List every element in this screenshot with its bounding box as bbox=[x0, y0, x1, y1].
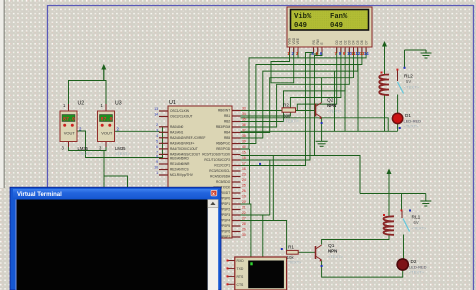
svg-text:35: 35 bbox=[242, 118, 246, 122]
svg-text:OSC2/CLKOUT: OSC2/CLKOUT bbox=[170, 115, 193, 119]
svg-text:28: 28 bbox=[242, 222, 246, 226]
svg-text:87.0: 87.0 bbox=[63, 117, 75, 123]
svg-text:13: 13 bbox=[154, 107, 158, 111]
svg-text:RA3/AN3/VREF+: RA3/AN3/VREF+ bbox=[170, 142, 195, 146]
svg-text:RC1/T1OSI/CCP2: RC1/T1OSI/CCP2 bbox=[204, 158, 230, 162]
svg-text:<TEXT>: <TEXT> bbox=[287, 260, 303, 265]
svg-text:<TEXT>: <TEXT> bbox=[115, 151, 131, 156]
svg-text:8: 8 bbox=[156, 155, 158, 159]
svg-text:U3: U3 bbox=[115, 101, 122, 107]
svg-text:RB4: RB4 bbox=[224, 131, 230, 135]
svg-text:18: 18 bbox=[242, 167, 246, 171]
svg-text:TXD: TXD bbox=[237, 267, 244, 271]
svg-text:R1: R1 bbox=[288, 245, 294, 250]
svg-text:NPN: NPN bbox=[327, 103, 336, 108]
svg-text:CTS: CTS bbox=[237, 283, 245, 287]
svg-text:15: 15 bbox=[242, 151, 246, 155]
svg-text:25: 25 bbox=[242, 184, 246, 188]
svg-text:Vib%: Vib% bbox=[294, 13, 312, 21]
svg-text:x: x bbox=[212, 191, 215, 196]
svg-text:VEE: VEE bbox=[296, 38, 300, 44]
svg-text:5V: 5V bbox=[406, 79, 411, 84]
svg-text:<TEXT>: <TEXT> bbox=[328, 254, 344, 259]
svg-text:049: 049 bbox=[330, 22, 343, 30]
svg-text:RB5: RB5 bbox=[224, 136, 230, 140]
svg-text:36: 36 bbox=[242, 123, 246, 127]
svg-text:27: 27 bbox=[242, 217, 246, 221]
svg-text:17: 17 bbox=[242, 162, 246, 166]
svg-text:RB3/PGM: RB3/PGM bbox=[216, 125, 231, 129]
svg-text:RC4/SDI/SDA: RC4/SDI/SDA bbox=[210, 175, 231, 179]
svg-text:RE0/AN5/RD: RE0/AN5/RD bbox=[170, 157, 189, 161]
svg-text:16: 16 bbox=[242, 156, 246, 160]
svg-text:RB2: RB2 bbox=[224, 120, 230, 124]
svg-text:RC5/SDO: RC5/SDO bbox=[216, 180, 231, 184]
svg-text:VOUT: VOUT bbox=[64, 131, 76, 136]
svg-text:D2: D2 bbox=[411, 259, 417, 264]
svg-text:30: 30 bbox=[242, 233, 246, 237]
svg-text:23: 23 bbox=[242, 173, 246, 177]
svg-text:RTS: RTS bbox=[237, 275, 244, 279]
svg-text:3: 3 bbox=[156, 128, 158, 132]
svg-text:<TEXT>: <TEXT> bbox=[404, 85, 420, 90]
svg-text:<TEXT>: <TEXT> bbox=[78, 151, 94, 156]
svg-text:40: 40 bbox=[242, 145, 246, 149]
svg-text:MCLR/Vpp/THV: MCLR/Vpp/THV bbox=[170, 173, 194, 177]
svg-text:39: 39 bbox=[242, 140, 246, 144]
svg-text:9: 9 bbox=[156, 160, 158, 164]
svg-text:<TEXT>: <TEXT> bbox=[404, 124, 420, 129]
svg-text:E: E bbox=[320, 42, 324, 44]
svg-text:D7: D7 bbox=[364, 40, 368, 44]
svg-text:38: 38 bbox=[242, 134, 246, 138]
svg-text:<TEXT>: <TEXT> bbox=[409, 270, 425, 275]
svg-text:U2: U2 bbox=[78, 101, 85, 107]
svg-text:RA2/AN2/VREF-/CVREF: RA2/AN2/VREF-/CVREF bbox=[170, 136, 205, 140]
svg-text:14: 14 bbox=[154, 113, 158, 117]
svg-text:Virtual Terminal: Virtual Terminal bbox=[17, 192, 62, 198]
svg-text:5: 5 bbox=[156, 139, 158, 143]
svg-text:RE2/AN7/CS: RE2/AN7/CS bbox=[170, 168, 189, 172]
svg-text:87.0: 87.0 bbox=[101, 117, 113, 123]
svg-text:R2: R2 bbox=[283, 103, 289, 108]
svg-text:20: 20 bbox=[242, 200, 246, 204]
svg-text:24: 24 bbox=[242, 178, 246, 182]
svg-text:U1: U1 bbox=[169, 100, 176, 106]
svg-text:14: 14 bbox=[364, 51, 369, 56]
svg-text:RB1: RB1 bbox=[224, 114, 230, 118]
svg-text:RC0/T1OSO/T1CKI: RC0/T1OSO/T1CKI bbox=[202, 153, 230, 157]
svg-text:2: 2 bbox=[156, 123, 158, 127]
svg-text:19: 19 bbox=[242, 195, 246, 199]
svg-text:34: 34 bbox=[242, 112, 246, 116]
svg-text:6: 6 bbox=[156, 145, 158, 149]
svg-text:22: 22 bbox=[242, 211, 246, 215]
svg-text:<TEXT>: <TEXT> bbox=[283, 119, 299, 124]
svg-text:RXD: RXD bbox=[237, 259, 245, 263]
svg-text:RA4/T0CKI/C1OUT: RA4/T0CKI/C1OUT bbox=[170, 147, 198, 151]
svg-text:4: 4 bbox=[156, 134, 158, 138]
svg-text:Fan%: Fan% bbox=[330, 13, 348, 21]
svg-text:26: 26 bbox=[242, 189, 246, 193]
svg-text:RB7/PGD: RB7/PGD bbox=[216, 147, 231, 151]
svg-text:29: 29 bbox=[242, 228, 246, 232]
svg-text:37: 37 bbox=[242, 129, 246, 133]
svg-text:1: 1 bbox=[156, 171, 158, 175]
svg-text:6V: 6V bbox=[414, 220, 419, 225]
svg-text:VOUT: VOUT bbox=[101, 131, 113, 136]
svg-text:OSC1/CLKIN: OSC1/CLKIN bbox=[170, 109, 190, 113]
svg-text:RA0/AN0: RA0/AN0 bbox=[170, 125, 184, 129]
svg-text:33: 33 bbox=[242, 107, 246, 111]
svg-text:RB0/INT: RB0/INT bbox=[218, 109, 230, 113]
svg-text:10: 10 bbox=[154, 166, 158, 170]
svg-text:RC2/CCP1: RC2/CCP1 bbox=[214, 164, 230, 168]
svg-text:<TEXT>: <TEXT> bbox=[412, 226, 428, 231]
svg-text:D1: D1 bbox=[405, 113, 411, 118]
svg-text:NPN: NPN bbox=[328, 249, 337, 254]
svg-text:RC3/SCK/SCL: RC3/SCK/SCL bbox=[209, 169, 230, 173]
svg-text:<TEXT>: <TEXT> bbox=[327, 109, 343, 114]
svg-text:RB6/PGC: RB6/PGC bbox=[216, 142, 231, 146]
svg-text:RE1/AN6/WR: RE1/AN6/WR bbox=[170, 162, 190, 166]
svg-text:21: 21 bbox=[242, 206, 246, 210]
svg-text:RA1/AN1: RA1/AN1 bbox=[170, 131, 184, 135]
svg-text:049: 049 bbox=[294, 22, 307, 30]
